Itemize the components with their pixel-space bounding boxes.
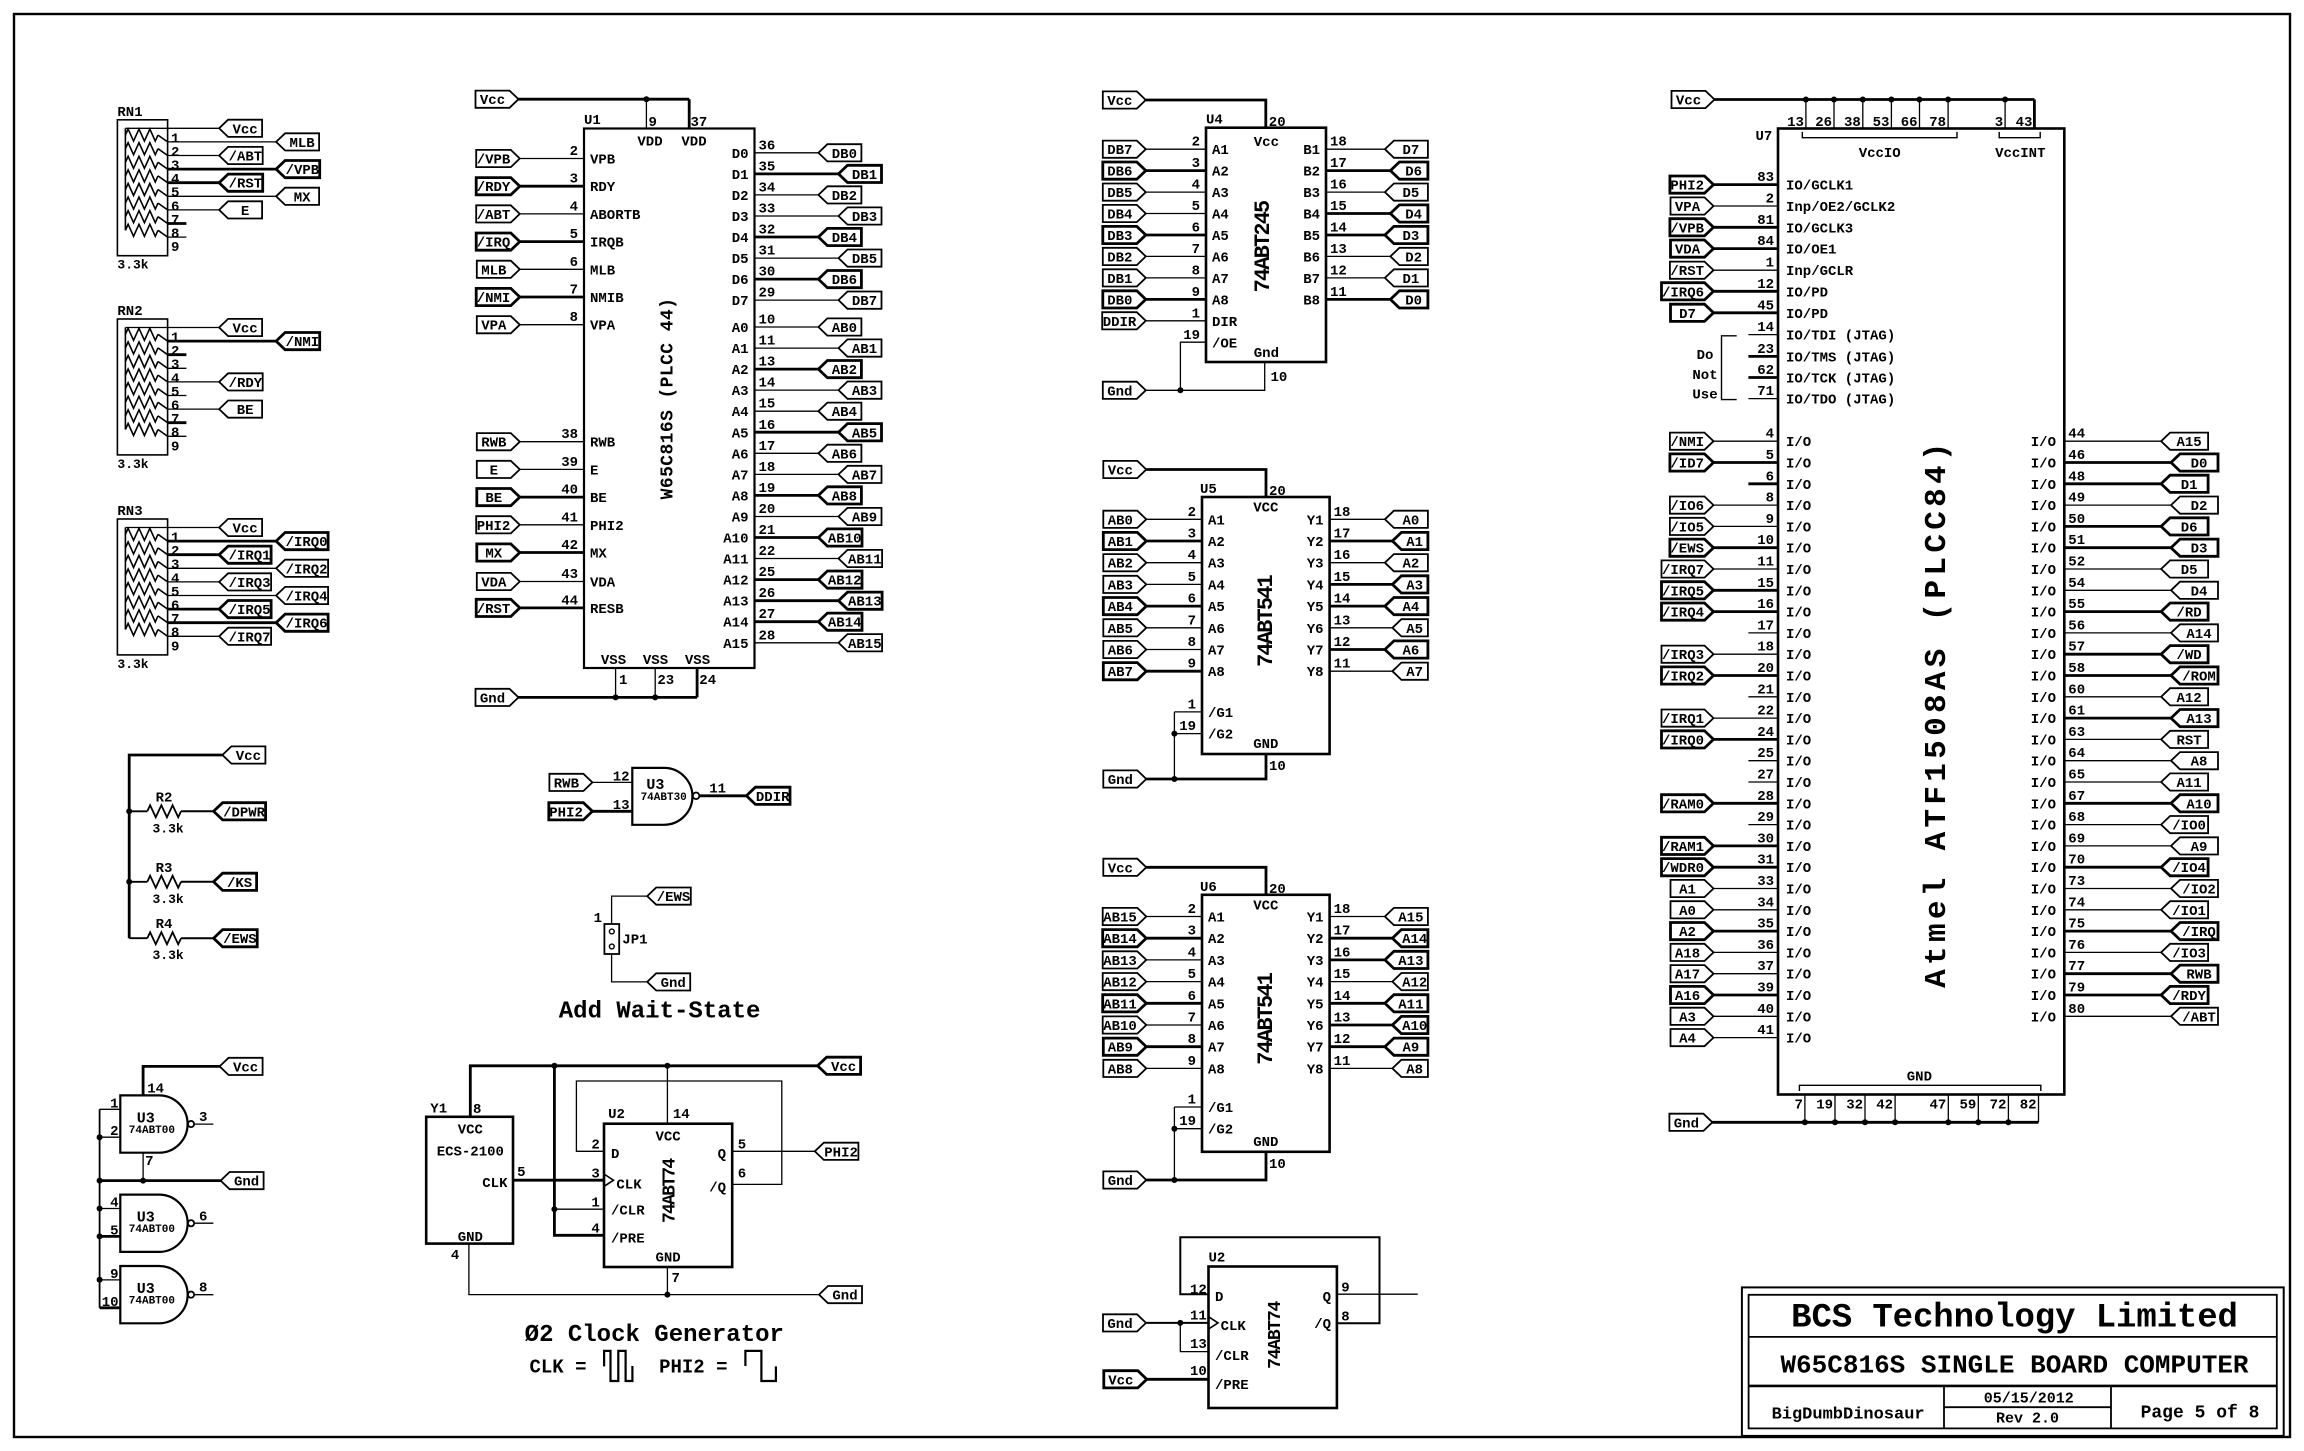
jumper JP1 [604,924,619,954]
wire AB2 to U5 pin 4 (A3) [1146,562,1202,564]
wire Gnd to U6 pin 10 [1146,1152,1266,1180]
node RST (U7 pin 63) [2161,731,2208,748]
svg-text:AB11: AB11 [1103,997,1137,1013]
svg-text:RN1: RN1 [117,105,142,121]
svg-text:AB11: AB11 [848,553,882,569]
svg-text:10: 10 [1269,1157,1286,1173]
wire Vcc bus to U7 VccIO VccINT pins [1715,98,2035,101]
node DB4 (U4 pin 5) [1103,205,1146,222]
svg-text:D: D [611,1147,619,1163]
wire U1 pin 10 (A0) to AB0 [755,326,819,328]
wire D7 to U7 pin 45 [1714,311,1779,314]
wire U7 JTAG pin 23 stub [1748,355,1778,358]
svg-text:/ABT: /ABT [2182,1010,2216,1026]
node A10 (U7 pin 67) [2171,795,2218,812]
svg-text:Y8: Y8 [1307,1062,1324,1078]
node BE (RN2 pin 7) [219,401,262,418]
svg-text:VSS: VSS [643,653,668,669]
svg-text:14: 14 [1757,320,1774,336]
node AB13 (U6 pin 4) [1103,951,1147,968]
svg-text:3: 3 [1188,527,1196,543]
node /IRQ0 (U7 pin 24) [1662,731,1714,748]
svg-text:IO/PD: IO/PD [1786,307,1828,323]
node AB8 (U1 pin 19) [818,487,861,504]
svg-text:Y8: Y8 [1307,665,1324,681]
wire A18 to U7 pin 36 [1714,951,1779,953]
svg-text:MX: MX [590,547,607,563]
svg-text:4: 4 [1188,945,1196,961]
svg-text:D6: D6 [732,273,749,289]
svg-text:54: 54 [2068,576,2085,592]
svg-text:IO/GCLK3: IO/GCLK3 [1786,221,1853,237]
svg-text:6: 6 [1766,469,1774,485]
svg-text:2: 2 [591,1137,599,1153]
svg-text:46: 46 [2068,448,2085,464]
svg-text:GND: GND [1907,1070,1932,1086]
svg-text:VPA: VPA [590,319,616,335]
svg-text:D3: D3 [732,210,749,226]
svg-text:A10: A10 [2186,797,2211,813]
svg-text:34: 34 [759,180,776,196]
node D5 (U7 pin 52) [2161,560,2208,577]
svg-text:GND: GND [1253,737,1278,753]
wire Gnd to U4 pin 10 [1146,362,1265,390]
node A17 (U7 pin 37) [1671,965,1714,982]
svg-text:I/O: I/O [2031,712,2056,728]
svg-text:/IRQ6: /IRQ6 [1662,285,1704,301]
svg-text:DB4: DB4 [1107,208,1132,224]
svg-text:3: 3 [1995,115,2003,131]
svg-text:3: 3 [591,1166,599,1182]
svg-text:A11: A11 [1398,997,1423,1013]
wire U7 JTAG pin 71 stub [1748,398,1778,400]
wire U6 pin 15 (Y4) to A12 [1330,981,1393,983]
svg-text:39: 39 [1757,981,1774,997]
svg-text:I/O: I/O [2031,904,2056,920]
node DB0 (U1 pin 36) [818,144,861,161]
svg-text:RN2: RN2 [117,304,142,320]
svg-text:I/O: I/O [2031,968,2056,984]
svg-text:Gnd: Gnd [832,1289,857,1305]
node A6 (U5 pin 12) [1385,641,1428,658]
wire RN1 pin 3 to /ABT [168,155,220,157]
svg-text:AB5: AB5 [1108,622,1133,638]
node /IO3 (U7 pin 76) [2161,944,2208,961]
svg-text:Vcc: Vcc [1108,464,1133,480]
svg-text:A12: A12 [2176,691,2201,707]
wire U1 pin 18 (A7) to AB7 [755,473,839,475]
node /IRQ2 (U7 pin 20) [1662,667,1714,684]
svg-text:12: 12 [1334,635,1351,651]
wire E to U1 pin 39 (E) [520,468,584,470]
svg-text:ABORTB: ABORTB [590,208,641,224]
wire RN3 pin 1 to Vcc [125,527,219,529]
svg-text:Use: Use [1692,388,1717,404]
svg-text:A3: A3 [732,384,749,400]
svg-text:/IRQ7: /IRQ7 [1662,563,1704,579]
svg-text:RWB: RWB [481,436,507,452]
node AB12 (U1 pin 25) [818,571,862,588]
svg-text:/ABT: /ABT [229,150,263,166]
svg-text:AB15: AB15 [1103,911,1137,927]
svg-text:6: 6 [1188,989,1196,1005]
svg-text:74ABT245: 74ABT245 [1251,200,1276,292]
node /ABT (U7 pin 80) [2171,1008,2218,1025]
svg-text:/IO4: /IO4 [2172,861,2206,877]
wire /NMI to U7 pin 4 [1714,440,1779,442]
wire DB4 to U4 pin 5 (A4) [1146,213,1206,215]
wire RN1 pin 7 to E [168,209,220,211]
svg-text:A9: A9 [1402,1041,1419,1057]
svg-text:D: D [1215,1290,1223,1306]
node A9 (U6 pin 12) [1385,1038,1428,1055]
node AB13 (U1 pin 26) [839,592,883,609]
node MLB (U1 pin 6) [477,261,520,278]
svg-text:12: 12 [1330,263,1347,279]
svg-text:8: 8 [1188,635,1196,651]
nand gate U3 74ABT00 #3 [120,1266,187,1323]
svg-text:13: 13 [1190,1337,1207,1353]
svg-text:9: 9 [1188,1054,1196,1070]
svg-text:Vcc: Vcc [1108,1373,1133,1389]
wire AB1 to U5 pin 3 (A2) [1146,540,1202,543]
svg-text:A7: A7 [1406,665,1423,681]
node Gnd (U7) [1669,1114,1712,1131]
svg-text:VccINT: VccINT [1995,146,2045,162]
wire Gnd bus (clock generator) [426,1243,469,1245]
svg-text:Q: Q [1323,1290,1331,1306]
svg-text:A13: A13 [2186,712,2211,728]
svg-text:I/O: I/O [2031,797,2056,813]
svg-text:Y5: Y5 [1307,600,1324,616]
svg-text:A13: A13 [723,595,748,611]
svg-text:82: 82 [2020,1097,2037,1113]
wire DDIR to U4 pin 1 (DIR) [1146,320,1206,322]
svg-text:18: 18 [1330,135,1347,151]
wire /IRQ2 to U7 pin 20 [1714,674,1779,677]
svg-text:71: 71 [1757,384,1774,400]
node Gnd (U1) [476,689,519,706]
node AB4 (U1 pin 15) [818,403,861,420]
svg-text:AB1: AB1 [852,342,877,358]
wire A0 to U7 pin 34 [1714,909,1779,911]
node Vcc (U2 bottom) [1104,1371,1147,1388]
svg-text:75: 75 [2068,917,2085,933]
svg-text:A8: A8 [1208,1062,1225,1078]
svg-text:3.3k: 3.3k [117,457,148,472]
svg-text:B5: B5 [1303,229,1320,245]
svg-text:D2: D2 [1405,250,1422,266]
svg-text:B7: B7 [1303,272,1320,288]
svg-text:13: 13 [759,355,776,371]
svg-text:Inp/GCLR: Inp/GCLR [1786,264,1854,280]
node /IRQ7 (U7 pin 11) [1662,560,1714,577]
wire R4 to /EWS [181,937,214,939]
svg-text:Gnd: Gnd [1107,1317,1132,1333]
wire A1 to U7 pin 33 [1714,888,1779,890]
svg-text:VCC: VCC [458,1123,484,1139]
svg-text:/Q: /Q [1314,1317,1331,1333]
svg-text:AB12: AB12 [828,574,862,590]
node E (RN1 pin 7) [219,201,262,218]
svg-text:23: 23 [657,673,674,689]
svg-text:62: 62 [1757,363,1774,379]
wire AB3 to U5 pin 5 (A4) [1146,583,1202,585]
wire U1 pin 35 (D1) to DB1 [755,172,839,175]
svg-text:IO/OE1: IO/OE1 [1786,243,1836,259]
svg-text:AB4: AB4 [832,405,857,421]
svg-text:58: 58 [2068,661,2085,677]
wire U5 pin 13 (Y6) to A5 [1330,627,1393,629]
svg-text:1: 1 [110,1096,118,1112]
svg-text:DB3: DB3 [1107,229,1132,245]
wire U7 pin 54 to D4 [2064,589,2171,591]
wire /IRQ5 to U7 pin 15 [1714,589,1779,592]
svg-text:/IRQ5: /IRQ5 [1662,584,1704,600]
svg-text:7: 7 [1794,1097,1802,1113]
svg-text:A8: A8 [1406,1062,1423,1078]
svg-text:D7: D7 [1679,307,1696,323]
wire Vcc to U4 pin 20 [1146,100,1266,128]
svg-text:11: 11 [759,334,776,350]
svg-text:VCC: VCC [655,1130,681,1146]
svg-text:RWB: RWB [590,436,616,452]
wire U7 pin 50 to D6 [2064,525,2161,528]
svg-text:/WDR0: /WDR0 [1662,861,1704,877]
bracket Do Not Use (JTAG) [1722,336,1737,400]
svg-text:A6: A6 [1212,250,1229,266]
svg-text:42: 42 [561,538,578,554]
svg-text:/CLR: /CLR [1215,1349,1249,1365]
node /VPB (RN1 pin 4) [276,161,320,178]
svg-text:Y6: Y6 [1307,1019,1324,1035]
wire A16 to U7 pin 39 [1714,994,1779,997]
svg-text:AB6: AB6 [1108,644,1133,660]
svg-text:AB4: AB4 [1108,600,1133,616]
svg-text:10: 10 [1190,1364,1207,1380]
wire A17 to U7 pin 37 [1714,973,1779,975]
svg-text:A15: A15 [1398,911,1423,927]
svg-text:13: 13 [1787,115,1804,131]
svg-text:I/O: I/O [1786,797,1811,813]
svg-text:12: 12 [613,769,630,785]
svg-text:16: 16 [1334,945,1351,961]
nand gate U3 74ABT00 #2 [120,1195,187,1252]
wire U1 pin 30 (D6) to DB6 [755,278,819,281]
node AB0 (U5 pin 2) [1103,511,1146,528]
svg-text:/G1: /G1 [1208,1101,1233,1117]
svg-text:31: 31 [1757,853,1774,869]
svg-text:8: 8 [1766,491,1774,507]
svg-text:14: 14 [673,1107,690,1123]
wire U7 pin 67 to A10 [2064,802,2171,805]
node /RD (U7 pin 55) [2161,603,2208,620]
node PHI2 (U2 Q) [815,1143,859,1160]
node D3 (U4 pin 14) [1385,226,1428,243]
wire R3 to /KS [181,881,214,883]
wire U1 pin 33 (D3) to DB3 [755,215,839,217]
wire /IRQ7 to U7 pin 11 [1714,568,1779,570]
svg-text:/IRQ0: /IRQ0 [286,535,328,551]
svg-text:2: 2 [1188,505,1196,521]
wire U1 pin 36 (D0) to DB0 [755,152,819,154]
wire U7 JTAG pin 62 stub [1748,376,1778,379]
svg-text:9: 9 [1188,657,1196,673]
wire R2 to /DPWR [181,810,214,812]
svg-text:30: 30 [1757,831,1774,847]
wire PHI2 to U7 pin 83 [1714,183,1779,186]
svg-text:AB10: AB10 [1103,1019,1137,1035]
svg-text:A4: A4 [1679,1032,1696,1048]
wire PHI2 to U1 pin 41 (PHI2) [520,524,584,526]
svg-text:/RDY: /RDY [229,376,263,392]
svg-text:10: 10 [102,1295,119,1311]
node AB10 (U6 pin 7) [1103,1016,1147,1033]
node AB3 (U1 pin 14) [839,382,882,399]
svg-text:16: 16 [1330,178,1347,194]
wire AB11 to U6 pin 6 (A5) [1146,1002,1202,1005]
node /IO5 (U7 pin 9) [1670,518,1714,535]
svg-text:A11: A11 [2176,776,2201,792]
wire VPA to U7 pin 2 [1714,205,1779,207]
node A13 (U6 pin 16) [1385,951,1428,968]
svg-text:15: 15 [759,397,776,413]
wire Vcc to U5 pin 20 [1146,470,1266,498]
svg-text:/RD: /RD [2176,606,2201,622]
wire Gnd bus (U3) [98,1179,220,1182]
svg-text:73: 73 [2068,874,2085,890]
wire AB4 to U5 pin 6 (A5) [1146,605,1202,608]
svg-text:U4: U4 [1206,113,1223,129]
svg-text:DB2: DB2 [1107,250,1132,266]
wire /RAM0 to U7 pin 28 [1714,802,1779,805]
svg-text:37: 37 [691,115,708,131]
wire VPA to U1 pin 8 (VPA) [520,324,584,326]
node /WD (U7 pin 57) [2161,646,2208,663]
svg-text:27: 27 [759,607,776,623]
svg-text:3: 3 [1188,924,1196,940]
node VDA (U1 pin 43) [477,573,520,590]
svg-text:33: 33 [759,201,776,217]
node D2 (U4 pin 13) [1390,248,1428,265]
svg-text:14: 14 [1330,221,1347,237]
svg-text:A2: A2 [1212,165,1229,181]
svg-text:BCS Technology Limited: BCS Technology Limited [1791,1300,2238,1338]
wire U7 pin 77 to RWB [2064,972,2171,975]
wire RN3 pin 5 to /IRQ3 [168,581,220,583]
svg-text:Y2: Y2 [1307,535,1324,551]
node /RDY (U7 pin 79) [2161,986,2208,1003]
wire U6 pin 11 (Y8) to A8 [1330,1067,1393,1069]
wire U5 pin 15 (Y4) to A3 [1330,583,1393,586]
wire U4 pin 18 (B1) to D7 [1326,148,1385,150]
node D3 (U7 pin 51) [2171,539,2218,556]
svg-text:D0: D0 [1405,293,1422,309]
svg-text:4: 4 [110,1196,118,1212]
svg-text:A10: A10 [1402,1019,1427,1035]
svg-text:3.3k: 3.3k [153,948,184,963]
svg-text:17: 17 [1334,924,1351,940]
svg-text:ECS-2100: ECS-2100 [437,1145,504,1161]
wire U5 pin 12 (Y7) to A6 [1330,648,1385,651]
node PHI2 (U7 pin 83) [1670,176,1714,193]
svg-text:VDA: VDA [590,576,616,592]
nand gate U3 74ABT00 #1 [120,1095,187,1152]
svg-text:50: 50 [2068,512,2085,528]
svg-text:A4: A4 [1402,600,1419,616]
wire U5 pin 11 (Y8) to A7 [1330,670,1393,672]
svg-text:7: 7 [672,1271,680,1287]
svg-text:/IRQ1: /IRQ1 [1662,712,1704,728]
svg-text:I/O: I/O [2031,989,2056,1005]
node /EWS (JP1) [647,888,691,905]
wire U7 pin 44 to A15 [2064,440,2161,442]
svg-text:JP1: JP1 [622,933,647,949]
node /IRQ (U7 pin 75) [2171,923,2218,940]
svg-text:I/O: I/O [2031,670,2056,686]
svg-text:CLK: CLK [616,1178,642,1194]
wire RN1 pin 2 to MLB [168,141,277,143]
svg-text:5: 5 [1188,570,1196,586]
svg-text:A2: A2 [1679,925,1696,941]
node AB9 (U6 pin 8) [1103,1038,1146,1055]
svg-text:I/O: I/O [2031,457,2056,473]
svg-text:2: 2 [110,1124,118,1140]
svg-text:IO/TDI (JTAG): IO/TDI (JTAG) [1786,329,1895,345]
svg-text:Vcc: Vcc [831,1060,856,1076]
svg-text:Vcc: Vcc [232,522,257,538]
svg-text:A14: A14 [1402,932,1427,948]
svg-text:A1: A1 [1212,143,1229,159]
svg-text:3.3k: 3.3k [117,657,148,672]
svg-text:DB7: DB7 [1107,143,1132,159]
svg-text:B6: B6 [1303,250,1320,266]
svg-text:17: 17 [1757,618,1774,634]
node VDA (U7 pin 84) [1671,240,1714,257]
resistor network RN2 [117,319,167,455]
svg-text:2: 2 [1766,192,1774,208]
node Vcc (U3 pin 14) [220,1058,263,1075]
wire MX to U1 pin 42 (MX) [520,551,584,554]
wire U7 pin 76 to /IO3 [2064,951,2161,953]
node A15 (U6 pin 18) [1385,908,1428,925]
wire U7 pin 51 to D3 [2064,546,2171,549]
node AB15 (U1 pin 28) [839,634,883,651]
node /EWS [214,930,258,947]
svg-text:DB0: DB0 [1107,293,1132,309]
svg-text:D1: D1 [2181,478,2198,494]
svg-text:I/O: I/O [2031,946,2056,962]
svg-text:52: 52 [2068,555,2085,571]
svg-text:I/O: I/O [1786,883,1811,899]
svg-text:16: 16 [759,418,776,434]
node /EWS (U7 pin 10) [1670,539,1714,556]
svg-text:D4: D4 [1405,208,1422,224]
svg-text:/VPB: /VPB [1670,221,1704,237]
node A7 (U5 pin 11) [1392,663,1428,680]
svg-text:VDD: VDD [681,135,706,151]
svg-text:A5: A5 [1212,229,1229,245]
wire /IRQ0 to U7 pin 24 [1714,738,1779,741]
svg-text:1: 1 [591,1195,599,1211]
svg-text:74ABT00: 74ABT00 [129,1296,175,1308]
node E (U1 pin 39) [477,461,520,478]
node AB8 (U6 pin 9) [1103,1060,1146,1077]
wire Vcc to U1 VDD pins 9 and 37 [519,98,690,101]
wire Y1 CLK pin 5 to U2 CLK pin 3 [513,1179,604,1182]
svg-text:AB14: AB14 [1103,932,1137,948]
node A9 (U7 pin 69) [2171,837,2218,854]
